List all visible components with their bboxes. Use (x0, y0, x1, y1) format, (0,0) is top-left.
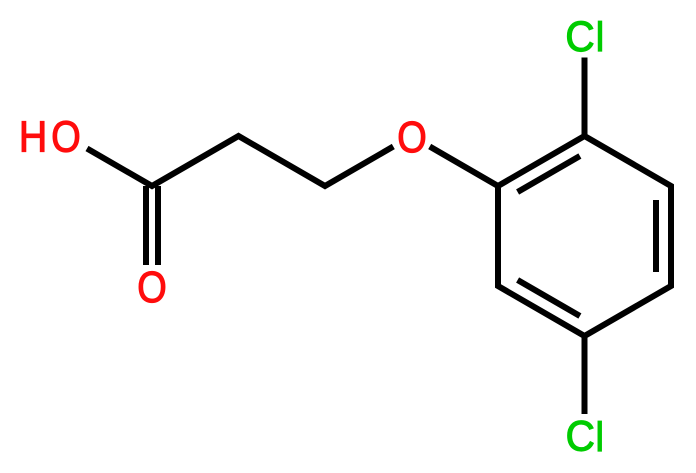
svg-text:C: C (565, 13, 594, 60)
svg-text:l: l (595, 15, 604, 61)
svg-text:C: C (566, 413, 595, 460)
svg-text:O: O (137, 262, 167, 311)
svg-text:l: l (595, 415, 604, 461)
svg-text:H: H (19, 112, 47, 161)
svg-text:O: O (397, 112, 427, 161)
svg-text:O: O (51, 112, 81, 161)
